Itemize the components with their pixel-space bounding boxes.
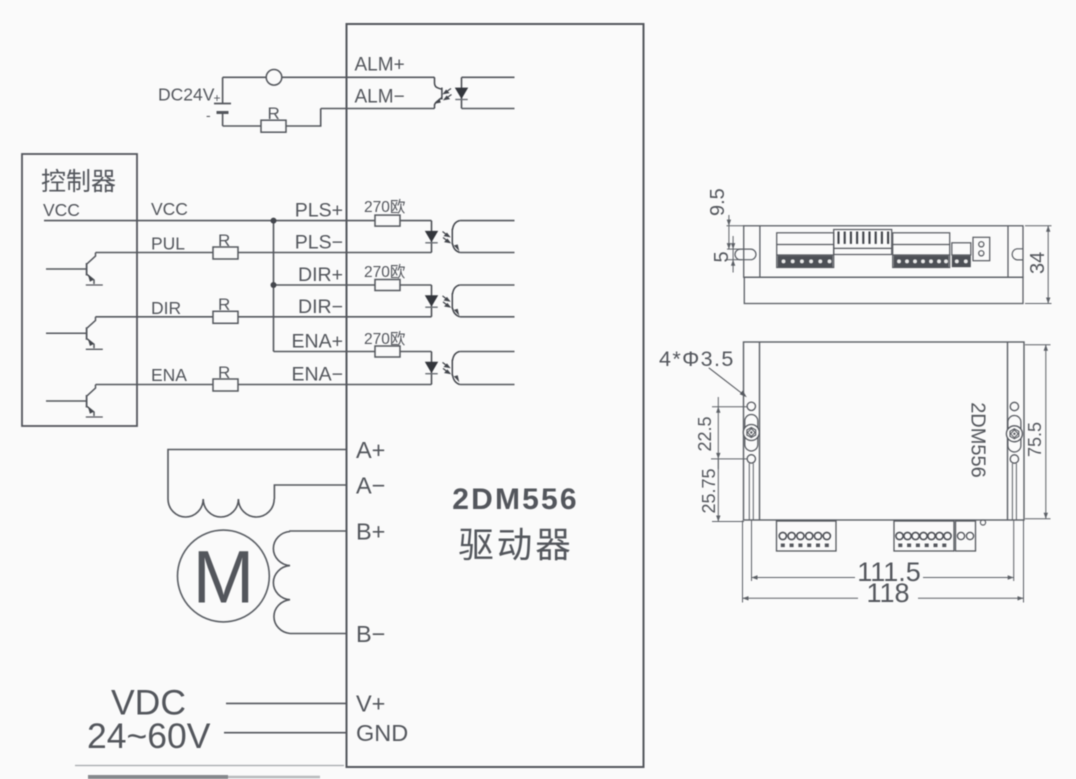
battery DC24V positive plate	[214, 103, 231, 105]
wire resistor to step-up corner	[286, 109, 321, 127]
svg-text:驱动器: 驱动器	[458, 525, 574, 565]
svg-text:22.5: 22.5	[695, 416, 715, 451]
wire PUL / PLS- line	[96, 252, 214, 254]
svg-text:M: M	[193, 536, 255, 619]
svg-text:R: R	[218, 363, 230, 382]
wire DIR / DIR- line	[96, 316, 214, 318]
optocoupler ALM LED cathode bar	[455, 99, 467, 101]
resistor R (alarm loop)	[261, 120, 286, 132]
top view connector right screw row	[894, 256, 949, 268]
svg-text:R: R	[218, 295, 230, 314]
wire ENA- resistor to LED	[238, 384, 432, 386]
svg-text:2DM556: 2DM556	[967, 402, 989, 478]
dimension 5 (top view)	[727, 236, 742, 273]
svg-text:B−: B−	[356, 621, 385, 647]
front view left bottom hole	[747, 455, 755, 463]
wire DIR opto top stub	[460, 284, 515, 286]
wire GND	[224, 732, 347, 734]
relay contact circle on ALM+ line	[266, 70, 282, 86]
front view right screw slot	[1008, 416, 1021, 453]
battery DC24V negative plate	[217, 111, 229, 114]
transistor Q1 (PUL)	[46, 253, 103, 286]
optocoupler ALM LED triangle	[455, 88, 468, 99]
svg-text:270欧: 270欧	[364, 263, 405, 281]
dimension 22.5 (front view)	[711, 397, 748, 469]
svg-text:R: R	[268, 104, 280, 123]
svg-text:DIR−: DIR−	[298, 296, 343, 318]
leader arrow 4*Φ3.5	[709, 368, 744, 395]
top view small block	[952, 243, 971, 255]
svg-text:ENA: ENA	[151, 365, 187, 385]
svg-text:+: +	[214, 91, 221, 105]
inductor phase-B winding	[273, 532, 290, 634]
top view left inner wall	[759, 226, 761, 277]
wire ALM- into driver box to optocoupler	[321, 108, 435, 110]
transistor Q3 (ENA)	[46, 385, 103, 418]
wire DIR- resistor to LED	[238, 316, 432, 318]
dimension 9.5 (top view)	[727, 215, 745, 249]
dimension 34 (top view)	[1025, 226, 1052, 304]
optocoupler DIR LED vertical	[431, 285, 433, 317]
optocoupler ENA phototransistor	[452, 352, 460, 385]
svg-text:25.75: 25.75	[699, 468, 719, 513]
bottom cropped text smudge	[88, 775, 228, 779]
dimension 118 (front view)	[743, 521, 1024, 603]
svg-text:PUL: PUL	[151, 234, 185, 254]
wire PLS- resistor to LED	[238, 252, 432, 254]
front view left channel lines	[749, 464, 753, 521]
front view left top hole	[747, 402, 755, 410]
resistor R on PUL	[213, 247, 238, 259]
motor M circle	[178, 530, 270, 622]
svg-text:ALM+: ALM+	[355, 55, 405, 76]
optocoupler ENA LED vertical	[431, 352, 433, 385]
optocoupler ENA LED cathode bar	[425, 373, 437, 375]
ALARM-CIRCUIT	[214, 70, 435, 133]
wire DIR+ resistor to LED	[400, 284, 432, 286]
svg-text:DC24V: DC24V	[158, 85, 215, 105]
optocoupler PLS emitter arrowhead	[454, 244, 460, 251]
front view outline	[744, 342, 1025, 520]
svg-text:5: 5	[711, 251, 733, 262]
top view small block screw row	[952, 256, 971, 268]
optocoupler DIR LED cathode bar	[425, 306, 437, 308]
resistor R on DIR	[213, 311, 238, 323]
svg-text:75.5: 75.5	[1025, 422, 1045, 457]
inductor phase-A winding	[168, 499, 274, 517]
svg-text:R: R	[218, 231, 230, 250]
driver box U1 2DM556	[347, 24, 644, 767]
front view bottom small hole	[980, 520, 985, 525]
wire ALM+ from battery to relay circle	[223, 76, 267, 78]
top view base plate	[744, 277, 1023, 303]
svg-text:-: -	[206, 107, 211, 123]
wire ALM opto top stub	[462, 76, 515, 78]
optocoupler PLS light arrows	[443, 232, 450, 243]
resistor 270ohm on ENA+	[375, 346, 400, 357]
front view left screw slot	[745, 415, 758, 452]
front view right channel lines	[1012, 464, 1016, 521]
top view DIP switch block	[834, 230, 892, 255]
wire PLS+ resistor to LED	[400, 220, 432, 222]
optocoupler DIR light arrows	[443, 296, 450, 307]
wire PLS opto top stub	[460, 220, 515, 222]
optocoupler PLS phototransistor	[452, 221, 460, 253]
transistor Q3 emitter arrowhead	[88, 406, 94, 414]
top view body outline	[744, 226, 1023, 277]
resistor 270ohm on DIR+	[375, 280, 400, 291]
optocoupler PLS LED triangle	[425, 231, 438, 242]
wire B+	[290, 530, 347, 533]
optocoupler DIR phototransistor	[452, 285, 460, 317]
front view right bottom hole	[1010, 455, 1018, 463]
svg-text:ALM−: ALM−	[355, 87, 405, 108]
wire ENA+ resistor to LED	[400, 351, 432, 353]
wire A-	[274, 485, 346, 499]
svg-text:9.5: 9.5	[707, 188, 729, 216]
svg-text:A−: A−	[356, 473, 385, 499]
front view right top hole	[1010, 402, 1018, 410]
top view left mounting slot	[735, 249, 756, 260]
svg-text:ENA+: ENA+	[292, 331, 343, 353]
svg-text:DIR: DIR	[151, 298, 181, 318]
wire ALM opto bottom stub	[462, 108, 515, 110]
optocoupler ALM emitter arrowhead	[434, 98, 441, 104]
svg-text:4*Φ3.5: 4*Φ3.5	[659, 347, 735, 371]
MOTOR SECTION	[168, 450, 347, 733]
optocoupler PLS LED cathode bar	[425, 242, 437, 244]
top view connector left screw row	[778, 256, 833, 268]
svg-text:PLS+: PLS+	[295, 200, 343, 222]
wire DIR opto bottom stub	[460, 316, 515, 318]
svg-text:34: 34	[1027, 252, 1049, 274]
optocoupler ENA emitter arrowhead	[454, 375, 460, 382]
optocoupler ALM LED vertical wire	[461, 77, 463, 108]
svg-text:A+: A+	[356, 437, 385, 463]
optocoupler ENA light arrows	[443, 362, 450, 373]
top view DIP switch ticks	[839, 232, 889, 244]
wire DIR+ line	[274, 284, 376, 286]
optocoupler ENA LED triangle	[425, 362, 438, 373]
svg-text:控制器: 控制器	[41, 168, 116, 196]
front view right inner wall	[1007, 342, 1009, 520]
transistor Q2 (DIR)	[46, 317, 103, 350]
top view connector block right	[893, 233, 950, 268]
front view left screw head	[743, 425, 759, 441]
wire B-	[290, 633, 347, 635]
node junction VCC-PLS+	[271, 218, 277, 224]
wire VCC junction column	[273, 221, 275, 352]
top view connector block left	[777, 233, 834, 268]
svg-text:270欧: 270欧	[364, 198, 405, 216]
wire ENA opto bottom stub	[460, 384, 515, 386]
optocoupler ALM light arrows	[444, 89, 452, 100]
svg-text:ENA−: ENA−	[292, 364, 343, 386]
optocoupler DIR LED triangle	[425, 295, 438, 306]
svg-text:DIR+: DIR+	[298, 264, 343, 286]
svg-text:VCC: VCC	[43, 200, 80, 220]
front view bottom connector left	[777, 521, 837, 551]
SCHEMATIC-LEFT	[347, 24, 644, 767]
wire ENA / ENA- line	[96, 384, 214, 386]
optocoupler PLS LED vertical	[431, 221, 433, 253]
wire PLS opto bottom stub	[460, 252, 515, 254]
svg-text:B+: B+	[356, 519, 385, 545]
wire ALM+ from circle into driver box to optocoupler	[282, 76, 435, 78]
resistor R on ENA	[213, 379, 238, 391]
bottom cropped table line	[75, 765, 344, 767]
svg-text:VCC: VCC	[151, 199, 188, 219]
svg-text:118: 118	[866, 578, 909, 608]
optocoupler ALM phototransistor	[435, 77, 442, 108]
resistor 270ohm on PLS+	[375, 215, 400, 226]
svg-text:2DM556: 2DM556	[452, 483, 579, 516]
wire battery+ to ALM+ line	[222, 77, 224, 103]
front view right screw head	[1006, 426, 1022, 442]
svg-text:270欧: 270欧	[364, 330, 405, 348]
wire ENA+ line	[274, 351, 376, 353]
controller box	[22, 154, 137, 426]
wire ENA opto top stub	[460, 351, 515, 353]
node junction DIR+	[271, 282, 277, 288]
transistor Q1 emitter arrowhead	[88, 274, 94, 282]
wire battery- down to R loop	[222, 113, 224, 127]
svg-text:PLS−: PLS−	[295, 232, 343, 254]
svg-text:24~60V: 24~60V	[87, 716, 211, 756]
wire battery- to resistor R (alarm)	[223, 125, 261, 127]
MECH FRONT VIEW	[744, 342, 1025, 520]
front view bottom connector right	[894, 521, 954, 551]
top view right mounting slot	[1012, 249, 1023, 260]
MECH TOP VIEW	[735, 226, 1023, 304]
wire V+	[226, 702, 347, 704]
dimension 75.5 (front view)	[1025, 345, 1051, 519]
front view left inner wall	[759, 342, 761, 520]
svg-text:V+: V+	[356, 691, 385, 717]
optocoupler DIR emitter arrowhead	[454, 309, 460, 316]
front view bottom connector small	[956, 521, 976, 551]
dimension 25.75 (front view)	[712, 459, 744, 522]
dimension 111.5 (front view)	[752, 521, 1014, 582]
top view right inner wall	[1007, 226, 1009, 277]
svg-text:GND: GND	[356, 720, 408, 746]
top view end connector	[973, 237, 990, 260]
wire A+	[168, 450, 347, 500]
transistor Q2 emitter arrowhead	[88, 339, 94, 347]
wire VCC / PLS+ line	[44, 220, 375, 222]
